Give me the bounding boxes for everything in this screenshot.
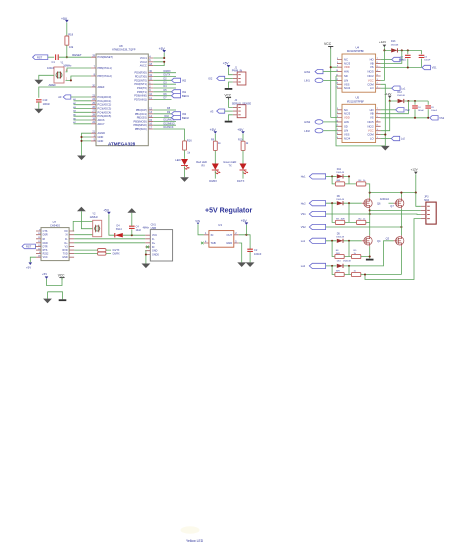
capacitor C2 100nF [247, 248, 261, 256]
CN1 pin names [152, 234, 159, 256]
ground (Y2 crystal, points up) [77, 207, 86, 212]
node Lo2 junctions [331, 265, 350, 267]
svg-text:D1/TX: D1/TX [164, 74, 171, 77]
wire OUT to +5V and C2 [239, 235, 250, 249]
wire +12V to drain rail [370, 174, 416, 197]
node COM junction [384, 134, 386, 136]
svg-text:IN1: IN1 [182, 90, 187, 94]
diode D5 1N4148 [336, 232, 344, 243]
VCC supply symbol (J2) [225, 93, 232, 99]
svg-text:D13: D13 [391, 40, 396, 43]
svg-text:ID: ID [152, 246, 155, 249]
svg-text:PD3(INT1): PD3(INT1) [134, 82, 147, 86]
wire U4 VB to rail [381, 50, 402, 63]
svg-text:U5: U5 [356, 96, 360, 100]
svg-text:DSR: DSR [43, 234, 48, 237]
svg-text:RX: RX [202, 164, 206, 167]
wire mid column A [369, 209, 371, 235]
svg-text:PWM_IN: PWM_IN [232, 69, 243, 73]
crystal Y1 16MHz [54, 60, 72, 83]
svg-text:100nF: 100nF [431, 110, 438, 112]
svg-text:IN3: IN3 [182, 112, 187, 116]
U8 right pin numbers [149, 55, 152, 129]
wire C1 to MCU reset pin [59, 56, 91, 58]
svg-text:TX: TX [229, 164, 232, 167]
wire +12V rail U4 [384, 47, 421, 50]
wire PD3 + net D3 [153, 81, 176, 84]
ground (CN1) [142, 264, 151, 269]
svg-text:SERVO_SENSE: SERVO_SENSE [232, 101, 252, 105]
svg-text:+5V: +5V [103, 209, 110, 213]
svg-text:PB1(OC1): PB1(OC1) [135, 112, 147, 116]
svg-text:LIN: LIN [344, 78, 348, 82]
wire R18 to reset node [66, 45, 68, 57]
svg-text:100nF: 100nF [424, 60, 431, 62]
diode D12 1N4148 [397, 91, 405, 103]
svg-text:+5V: +5V [237, 128, 244, 132]
net label LIN1 [304, 78, 323, 82]
net label IN1 [172, 90, 187, 94]
connector JP3 M04 [424, 196, 436, 225]
ground (C13) [34, 109, 43, 114]
svg-text:NC: NC [344, 58, 348, 62]
wire green LED to net D1/TX [237, 171, 245, 183]
diode D11 1N4148 [336, 168, 344, 178]
wire U7 D- to CN1 [74, 238, 145, 240]
node VS2 tap [400, 226, 402, 228]
U7 right pin stubs [69, 231, 74, 257]
op IC U8 ATMEGA328 TQFP box [96, 44, 148, 146]
svg-text:+5V: +5V [42, 272, 47, 276]
U5 pin names [344, 108, 351, 141]
svg-text:Q4: Q4 [377, 239, 381, 243]
resistor R13 [74, 252, 111, 255]
wire ADC1 + label A1 [73, 98, 91, 101]
wire LED to ground [184, 166, 186, 177]
U3 pin numbers [205, 232, 237, 243]
node VCC junctions [163, 57, 165, 63]
svg-text:GND: GND [62, 256, 68, 259]
node C4 junction [131, 234, 133, 236]
svg-text:+5V: +5V [223, 62, 230, 66]
svg-text:VCC2: VCC2 [140, 60, 147, 64]
resistor R9 1k [211, 138, 221, 150]
svg-text:100nF: 100nF [254, 252, 262, 256]
node VS junction [407, 66, 409, 68]
svg-text:RESET: RESET [72, 53, 82, 57]
wire +5V to D4 [109, 214, 115, 235]
svg-text:4MHz: 4MHz [143, 227, 150, 230]
node XTAL2 junction [70, 79, 72, 81]
svg-text:D1/TX: D1/TX [237, 179, 245, 183]
svg-text:Ho1: Ho1 [301, 175, 306, 179]
wire VCC to J2 pin1 [229, 100, 233, 108]
svg-text:ATMEGA328: ATMEGA328 [108, 141, 136, 146]
U7 pin names [43, 230, 49, 259]
svg-text:VS: VS [370, 65, 374, 69]
resistor R10 1k [238, 138, 249, 150]
wire LIN1 to U4 [323, 79, 337, 81]
node VDD junction U4 [330, 66, 332, 68]
svg-text:VSS: VSS [344, 82, 350, 86]
svg-text:PB4(MISO): PB4(MISO) [134, 123, 147, 127]
svg-text:PC0(ADC0): PC0(ADC0) [98, 95, 112, 99]
svg-text:+12V: +12V [384, 92, 391, 96]
resistor 30R (Ho1 gate) [335, 180, 344, 186]
svg-text:R10: R10 [238, 138, 243, 141]
net label VS2 (motor B) [301, 224, 326, 229]
wire Ho2 row to Q6 gate [326, 202, 362, 204]
svg-text:PB7(XTAL2): PB7(XTAL2) [98, 74, 113, 78]
net label Lo2 (U5) [381, 136, 406, 140]
net label LIN2 [304, 129, 323, 133]
wire PB3 + net D11/MOSI [153, 119, 176, 122]
svg-text:CTS: CTS [43, 230, 48, 233]
wire PD2 + net D2 [153, 78, 171, 81]
wire CN1 GND to ground [144, 251, 147, 264]
ground (LED chain) [180, 177, 189, 182]
wire J1 pin3 to ground [229, 82, 233, 88]
svg-text:D11: D11 [337, 168, 342, 171]
svg-text:GND: GND [98, 139, 104, 143]
+5V supply symbol (reset pullup) [61, 17, 69, 23]
svg-text:VCC: VCC [43, 256, 48, 259]
svg-text:1N4148: 1N4148 [343, 261, 351, 263]
svg-text:RST: RST [37, 55, 43, 59]
svg-text:Lo2: Lo2 [301, 264, 306, 268]
wire AREF to C13 [39, 87, 91, 98]
svg-text:HIN: HIN [344, 70, 349, 74]
wire PD5 + net D5 [153, 89, 171, 92]
svg-text:100nF: 100nF [43, 102, 51, 106]
svg-text:VS2: VS2 [439, 116, 444, 120]
svg-text:XI: XI [65, 234, 68, 237]
wire VCC to VDD pins U4/U5 [331, 49, 337, 118]
svg-text:VDD: VDD [344, 116, 350, 120]
net label Ho1 (driver out) [381, 57, 407, 61]
wire HIN1 to U4 [323, 71, 337, 73]
wire ADC2 + label A2 [73, 102, 91, 105]
wire RST to U7 [34, 245, 37, 247]
+5V supply symbol (J1) [223, 62, 231, 68]
svg-text:PC1(ADC1): PC1(ADC1) [98, 99, 112, 103]
U8 right pin stubs [148, 58, 153, 129]
net label Ho2 (U5) [381, 108, 411, 112]
wire +5V to VCC tie [47, 278, 63, 286]
svg-text:ADC7: ADC7 [98, 122, 105, 126]
node GND junctions [80, 136, 82, 142]
U7 pin numbers [38, 229, 41, 257]
net label VIN [195, 219, 200, 225]
connector J1 PWM_IN [232, 66, 246, 85]
U5 left pin stubs [337, 110, 342, 139]
svg-text:+5V: +5V [210, 128, 217, 132]
svg-text:PD4(T0): PD4(T0) [137, 86, 147, 90]
net label RST [33, 55, 48, 60]
ground bar (Q4 source) [366, 259, 374, 261]
svg-text:Lo1: Lo1 [401, 87, 406, 90]
svg-text:1N4148: 1N4148 [336, 199, 344, 201]
wire +5V to R18 [66, 23, 68, 37]
svg-text:AREF: AREF [98, 85, 105, 89]
wire +12V down to U5 VCC pin [381, 101, 390, 131]
svg-text:C2: C2 [254, 248, 258, 252]
U8 left pin stubs [91, 57, 96, 141]
svg-text:GND: GND [152, 250, 158, 253]
svg-text:Yellow LED: Yellow LED [186, 539, 204, 543]
svg-text:PD7(AIN1): PD7(AIN1) [134, 98, 147, 102]
wire U3 GND to ground [239, 243, 242, 262]
svg-text:AREF: AREF [49, 83, 57, 87]
svg-text:HO: HO [370, 58, 374, 62]
svg-text:PC3(ADC3): PC3(ADC3) [98, 107, 112, 111]
capacitor C4 10uF [129, 213, 142, 236]
svg-text:Q6: Q6 [377, 201, 381, 205]
svg-text:Y2: Y2 [92, 212, 96, 216]
wire U4 VS rail [381, 67, 422, 69]
svg-text:SD: SD [344, 124, 348, 128]
svg-text:30R: 30R [336, 253, 340, 255]
wire Y2 ground stem [81, 211, 92, 228]
svg-text:LIN: LIN [344, 129, 348, 133]
wire PB0 + net D8 [153, 107, 176, 110]
U8 left pin names [98, 55, 114, 143]
svg-text:+12V: +12V [411, 168, 418, 172]
net label A3 (J2) [210, 109, 225, 113]
svg-text:1N4148: 1N4148 [336, 172, 344, 174]
diode D13 1N4148 [391, 40, 399, 52]
wire +12V to JP3 pin1 [416, 193, 421, 207]
wire +12V rail U5 [390, 98, 429, 101]
ground (MCU) [77, 156, 86, 161]
+5V supply symbol (U7) [26, 257, 36, 269]
crystal Y2 12MHz [90, 212, 102, 237]
svg-text:PD1(TXD): PD1(TXD) [135, 75, 147, 79]
svg-text:D12: D12 [397, 91, 402, 94]
wire 1k to +12V rail [366, 184, 370, 193]
capacitor C8 100nF [425, 101, 437, 118]
wire Q7 gate [389, 202, 394, 204]
node Ho2 junctions [331, 202, 350, 204]
capacitor C4 100uF [412, 101, 424, 118]
svg-text:NC/4: NC/4 [344, 137, 351, 141]
yellow LED glow blob [181, 526, 200, 534]
svg-text:DTR: DTR [43, 245, 48, 248]
svg-text:PC2(ADC2): PC2(ADC2) [98, 103, 112, 107]
wire U4 COM to ground [381, 84, 386, 146]
wire AGND/GND to ground [82, 133, 92, 155]
svg-text:PB5(SCK): PB5(SCK) [135, 127, 147, 131]
svg-text:AGND: AGND [98, 131, 106, 135]
svg-text:PD0(RXD): PD0(RXD) [135, 71, 147, 75]
svg-text:U3: U3 [218, 223, 222, 227]
wire +5V to J1 pin1 [229, 68, 233, 75]
svg-text:+5V: +5V [61, 17, 68, 21]
net label HIN2 [304, 120, 323, 124]
serial IC U7 CH340G box [41, 220, 69, 261]
svg-text:Q7: Q7 [390, 204, 394, 208]
U4 right pin stubs [376, 60, 381, 89]
net label IO2 [208, 76, 225, 80]
diode D10 1N4148 [337, 261, 352, 268]
wire R5 to Q4 source [361, 246, 370, 258]
wire XO to Y2 [74, 234, 93, 236]
wire R10 to green LED [242, 150, 244, 163]
svg-text:1N4148: 1N4148 [336, 237, 344, 239]
svg-text:IO2: IO2 [208, 77, 213, 81]
svg-text:VCC: VCC [324, 42, 332, 46]
svg-text:LIN1: LIN1 [304, 79, 310, 83]
node gate node junction [348, 175, 350, 177]
svg-text:100uF: 100uF [418, 110, 425, 112]
node source junction [369, 255, 371, 257]
svg-text:VCC: VCC [225, 93, 232, 97]
svg-text:GNDS: GNDS [152, 254, 159, 257]
wire C2 to ground [249, 251, 251, 262]
svg-text:VCC: VCC [368, 129, 374, 133]
svg-text:30R: 30R [341, 219, 345, 221]
svg-text:VCC: VCC [368, 78, 374, 82]
connector CN1 USB [150, 222, 172, 261]
svg-text:AVCC: AVCC [140, 64, 147, 68]
svg-text:HIN1: HIN1 [304, 70, 310, 74]
net label HIN1 [304, 70, 323, 74]
svg-text:NC: NC [344, 108, 348, 112]
svg-text:Lo1: Lo1 [301, 239, 306, 243]
net label Lo1 (U4) [381, 86, 406, 90]
svg-text:NC/2: NC/2 [367, 124, 374, 128]
wire PD6 + net D6 [153, 93, 171, 96]
+12V supply symbol (U4 bootstrap) [379, 40, 386, 47]
svg-text:PC5(ADC5): PC5(ADC5) [98, 114, 112, 118]
wire D10 parallel branch [332, 266, 351, 275]
resistor R12 [74, 249, 111, 252]
diode D9 1N4148 [336, 195, 344, 205]
net label BEN1 [172, 94, 190, 98]
svg-text:30R: 30R [336, 271, 340, 273]
J2 pin stubs [233, 107, 237, 114]
svg-text:SD: SD [344, 74, 348, 78]
net label Lo1 (gate row) [301, 238, 326, 243]
svg-text:+5V Regulator: +5V Regulator [205, 208, 253, 215]
U8 left pin numbers [92, 55, 95, 142]
ground (U3 GND) [237, 262, 246, 267]
svg-text:D-: D- [65, 238, 68, 241]
net label Ho2 (gate row) [301, 201, 326, 206]
svg-text:CH340G: CH340G [50, 223, 60, 227]
svg-text:U4: U4 [356, 45, 360, 49]
svg-text:+5V: +5V [159, 47, 166, 51]
node OUT junction [245, 234, 247, 236]
node Lo1 junctions [331, 240, 350, 242]
svg-text:1N4148: 1N4148 [397, 95, 405, 97]
svg-text:VCC: VCC [58, 273, 65, 277]
+5V supply symbol (net tie) [42, 272, 48, 279]
VCC supply symbol (drivers) [324, 42, 333, 48]
ground bar (tie right) [59, 299, 67, 301]
wire Ho1 row [326, 175, 337, 177]
svg-text:IR2110STRPBF: IR2110STRPBF [347, 50, 365, 53]
svg-text:VDD: VDD [344, 65, 350, 69]
svg-text:NC/4: NC/4 [344, 86, 351, 90]
wire VCC pins to +5V [153, 53, 164, 66]
transistor Q7 [390, 198, 404, 209]
svg-text:Q3: Q3 [386, 237, 390, 241]
node drain rail junctions [369, 192, 417, 194]
+5V supply symbol (regulator out) [241, 219, 249, 235]
svg-text:VS1: VS1 [432, 66, 437, 70]
wire J2 pin3 to ground [229, 115, 233, 121]
svg-text:100n: 100n [399, 59, 405, 61]
wire red LED to net D0/RX [209, 171, 217, 183]
+5V supply symbol (red LED) [210, 128, 218, 134]
svg-text:IN: IN [211, 233, 214, 237]
resistor R18 10k [65, 33, 74, 49]
+5V supply symbol (USB power) [103, 209, 111, 215]
ground bar (J2) [225, 121, 233, 123]
resistor 1k (Ho1 pullup) [357, 180, 367, 186]
svg-text:U7: U7 [53, 220, 57, 224]
svg-text:AOD4x2: AOD4x2 [380, 198, 390, 201]
resistor R7 30R [335, 219, 345, 225]
wire XI to Y2 [73, 221, 93, 231]
wire D4 to CN1 VCC [123, 234, 146, 236]
wire D11 parallel branch [332, 176, 356, 184]
wire PB4 + net D12/MISO [153, 122, 176, 125]
svg-text:COM: COM [367, 133, 374, 137]
wire JP3 pin2 [370, 209, 421, 211]
wire XTAL1 [66, 68, 92, 72]
svg-text:ATMEGA328_TQFP: ATMEGA328_TQFP [112, 48, 136, 52]
svg-text:Lo2: Lo2 [401, 138, 406, 141]
resistor R16 1k [183, 139, 193, 155]
+5V supply symbol (green LED) [237, 128, 245, 134]
svg-text:NC/3: NC/3 [344, 61, 351, 65]
ground (tie left) [43, 299, 52, 304]
svg-text:ADC6: ADC6 [98, 118, 105, 122]
ground bar (J1) [225, 88, 233, 90]
svg-text:NC/5: NC/5 [367, 120, 374, 124]
svg-text:PB3(MOSI): PB3(MOSI) [134, 119, 147, 123]
node GND junction [145, 253, 147, 255]
svg-text:TXD: TXD [63, 253, 68, 256]
resistor R5 1k [352, 250, 361, 259]
wire U5 VB to rail [381, 101, 409, 114]
svg-text:PC4(ADC4): PC4(ADC4) [98, 110, 112, 114]
U4 left pin stubs [337, 60, 342, 89]
regulator U3 box [209, 223, 234, 247]
wire D5 parallel branch [332, 241, 351, 257]
svg-text:LED: LED [175, 158, 180, 162]
svg-text:CN1: CN1 [151, 222, 157, 226]
svg-text:D0/RX: D0/RX [164, 70, 171, 73]
wire ADC0 [71, 96, 91, 98]
wire PB5 to LED chain + net D13/SCK [153, 126, 184, 141]
svg-text:HIN: HIN [344, 120, 349, 124]
wire ground tie [48, 292, 63, 300]
resistor R2 1k [357, 219, 367, 225]
svg-text:USB: USB [151, 226, 157, 230]
wire VS1 to JP3 pin3 [326, 213, 421, 216]
svg-text:PB0(ICP): PB0(ICP) [136, 108, 147, 112]
svg-text:Ho2: Ho2 [301, 201, 306, 205]
svg-text:VB: VB [370, 112, 374, 116]
wire XTAL2 [66, 76, 92, 80]
node VS1 tap [369, 213, 371, 215]
U3 pin stubs [204, 235, 239, 243]
wire VS2 row [326, 226, 402, 228]
node Ho1 junction [331, 175, 333, 177]
